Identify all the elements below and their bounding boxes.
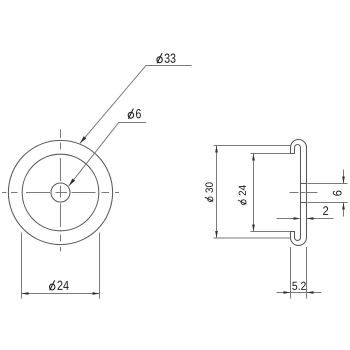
leader line phi33 (80, 66, 192, 144)
extension line right 5.2 dim (306, 247, 308, 299)
arrow bottom phi30 (215, 231, 218, 238)
extension line left 5.2 dim (290, 247, 292, 299)
label phi24 front (50, 280, 69, 290)
label 5.2 (292, 282, 297, 290)
arrow right-pointing 5.2 dim (284, 291, 291, 294)
label phi30 rotated (205, 182, 214, 201)
leader line phi6 (69, 123, 146, 186)
outer circle phi33 (8, 140, 112, 244)
label phi33 (157, 53, 176, 63)
extension line top 6 dim (308, 183, 348, 185)
middle circle phi24 (22, 154, 99, 231)
extension line right phi24 front (99, 233, 101, 299)
leader arrow phi33 (80, 136, 87, 143)
arrow top phi30 (215, 146, 218, 153)
dimension line phi30 (216, 146, 218, 239)
label phi6 (128, 109, 141, 119)
leader tail right 2 dim (307, 218, 334, 220)
dimension line 5.2 (277, 292, 322, 294)
arrow right phi24 front (93, 292, 100, 295)
side view section profile (291, 140, 307, 246)
extension line bottom phi24 side (251, 231, 291, 233)
dimension line phi24 front (22, 293, 100, 295)
leader tail left 2 dim (277, 218, 294, 220)
hole bottom edge in section (301, 202, 307, 204)
arrow down 6 dim (342, 177, 345, 184)
dimension line 6 lower segment (343, 203, 345, 217)
inner circle phi6 hole (51, 183, 70, 202)
extension line bottom 6 dim (308, 202, 348, 204)
hole top edge in section (301, 183, 307, 185)
label 6 rotated (333, 191, 342, 196)
extension line top phi30 (214, 145, 291, 147)
label phi24 side rotated (238, 185, 247, 204)
leader arrow phi6 (69, 179, 75, 186)
horizontal centerline front view (2, 192, 119, 194)
dimension line 6 upper segment (343, 170, 345, 184)
label 2 (323, 206, 328, 215)
arrow bottom phi24 side (252, 225, 255, 232)
arrow left-pointing 2 dim (307, 217, 314, 220)
extension line top phi24 side (251, 153, 291, 155)
extension line left phi24 front (21, 233, 23, 299)
vertical centerline front view (60, 129, 62, 251)
arrow up 6 dim (342, 203, 345, 210)
horizontal centerline side view (290, 192, 318, 194)
arrow left-pointing 5.2 dim (307, 291, 314, 294)
arrow left phi24 front (22, 292, 29, 295)
arrow top phi24 side (252, 154, 255, 161)
dimension line phi24 side (253, 154, 255, 232)
extension line bottom phi30 (214, 237, 291, 239)
arrow right-pointing 2 dim (294, 217, 301, 220)
